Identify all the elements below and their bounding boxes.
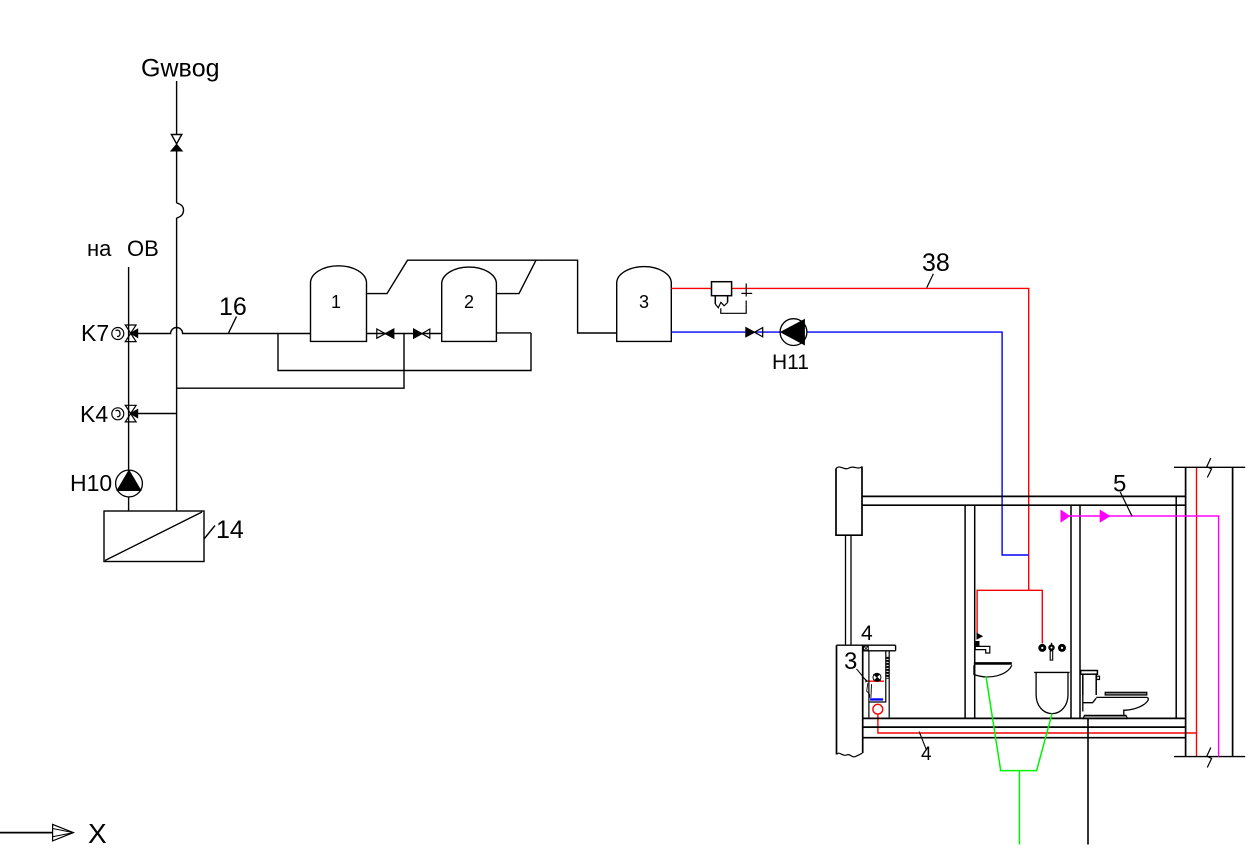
svg-text:2: 2	[464, 292, 474, 312]
svg-text:X: X	[88, 818, 107, 849]
svg-text:16: 16	[219, 293, 247, 321]
svg-text:Gwвog: Gwвog	[141, 55, 220, 83]
svg-text:3: 3	[639, 292, 649, 312]
svg-text:5: 5	[1113, 471, 1126, 498]
svg-text:3: 3	[844, 648, 857, 675]
svg-text:38: 38	[922, 249, 950, 277]
svg-text:1: 1	[331, 292, 341, 312]
svg-text:14: 14	[216, 516, 244, 544]
svg-text:H10: H10	[70, 470, 112, 496]
svg-text:на: на	[87, 236, 112, 261]
svg-text:4: 4	[921, 744, 932, 765]
svg-text:K7: K7	[81, 320, 109, 346]
svg-text:ОВ: ОВ	[127, 236, 159, 261]
svg-text:K4: K4	[80, 401, 108, 427]
svg-text:H11: H11	[772, 351, 809, 374]
svg-text:4: 4	[861, 622, 873, 645]
